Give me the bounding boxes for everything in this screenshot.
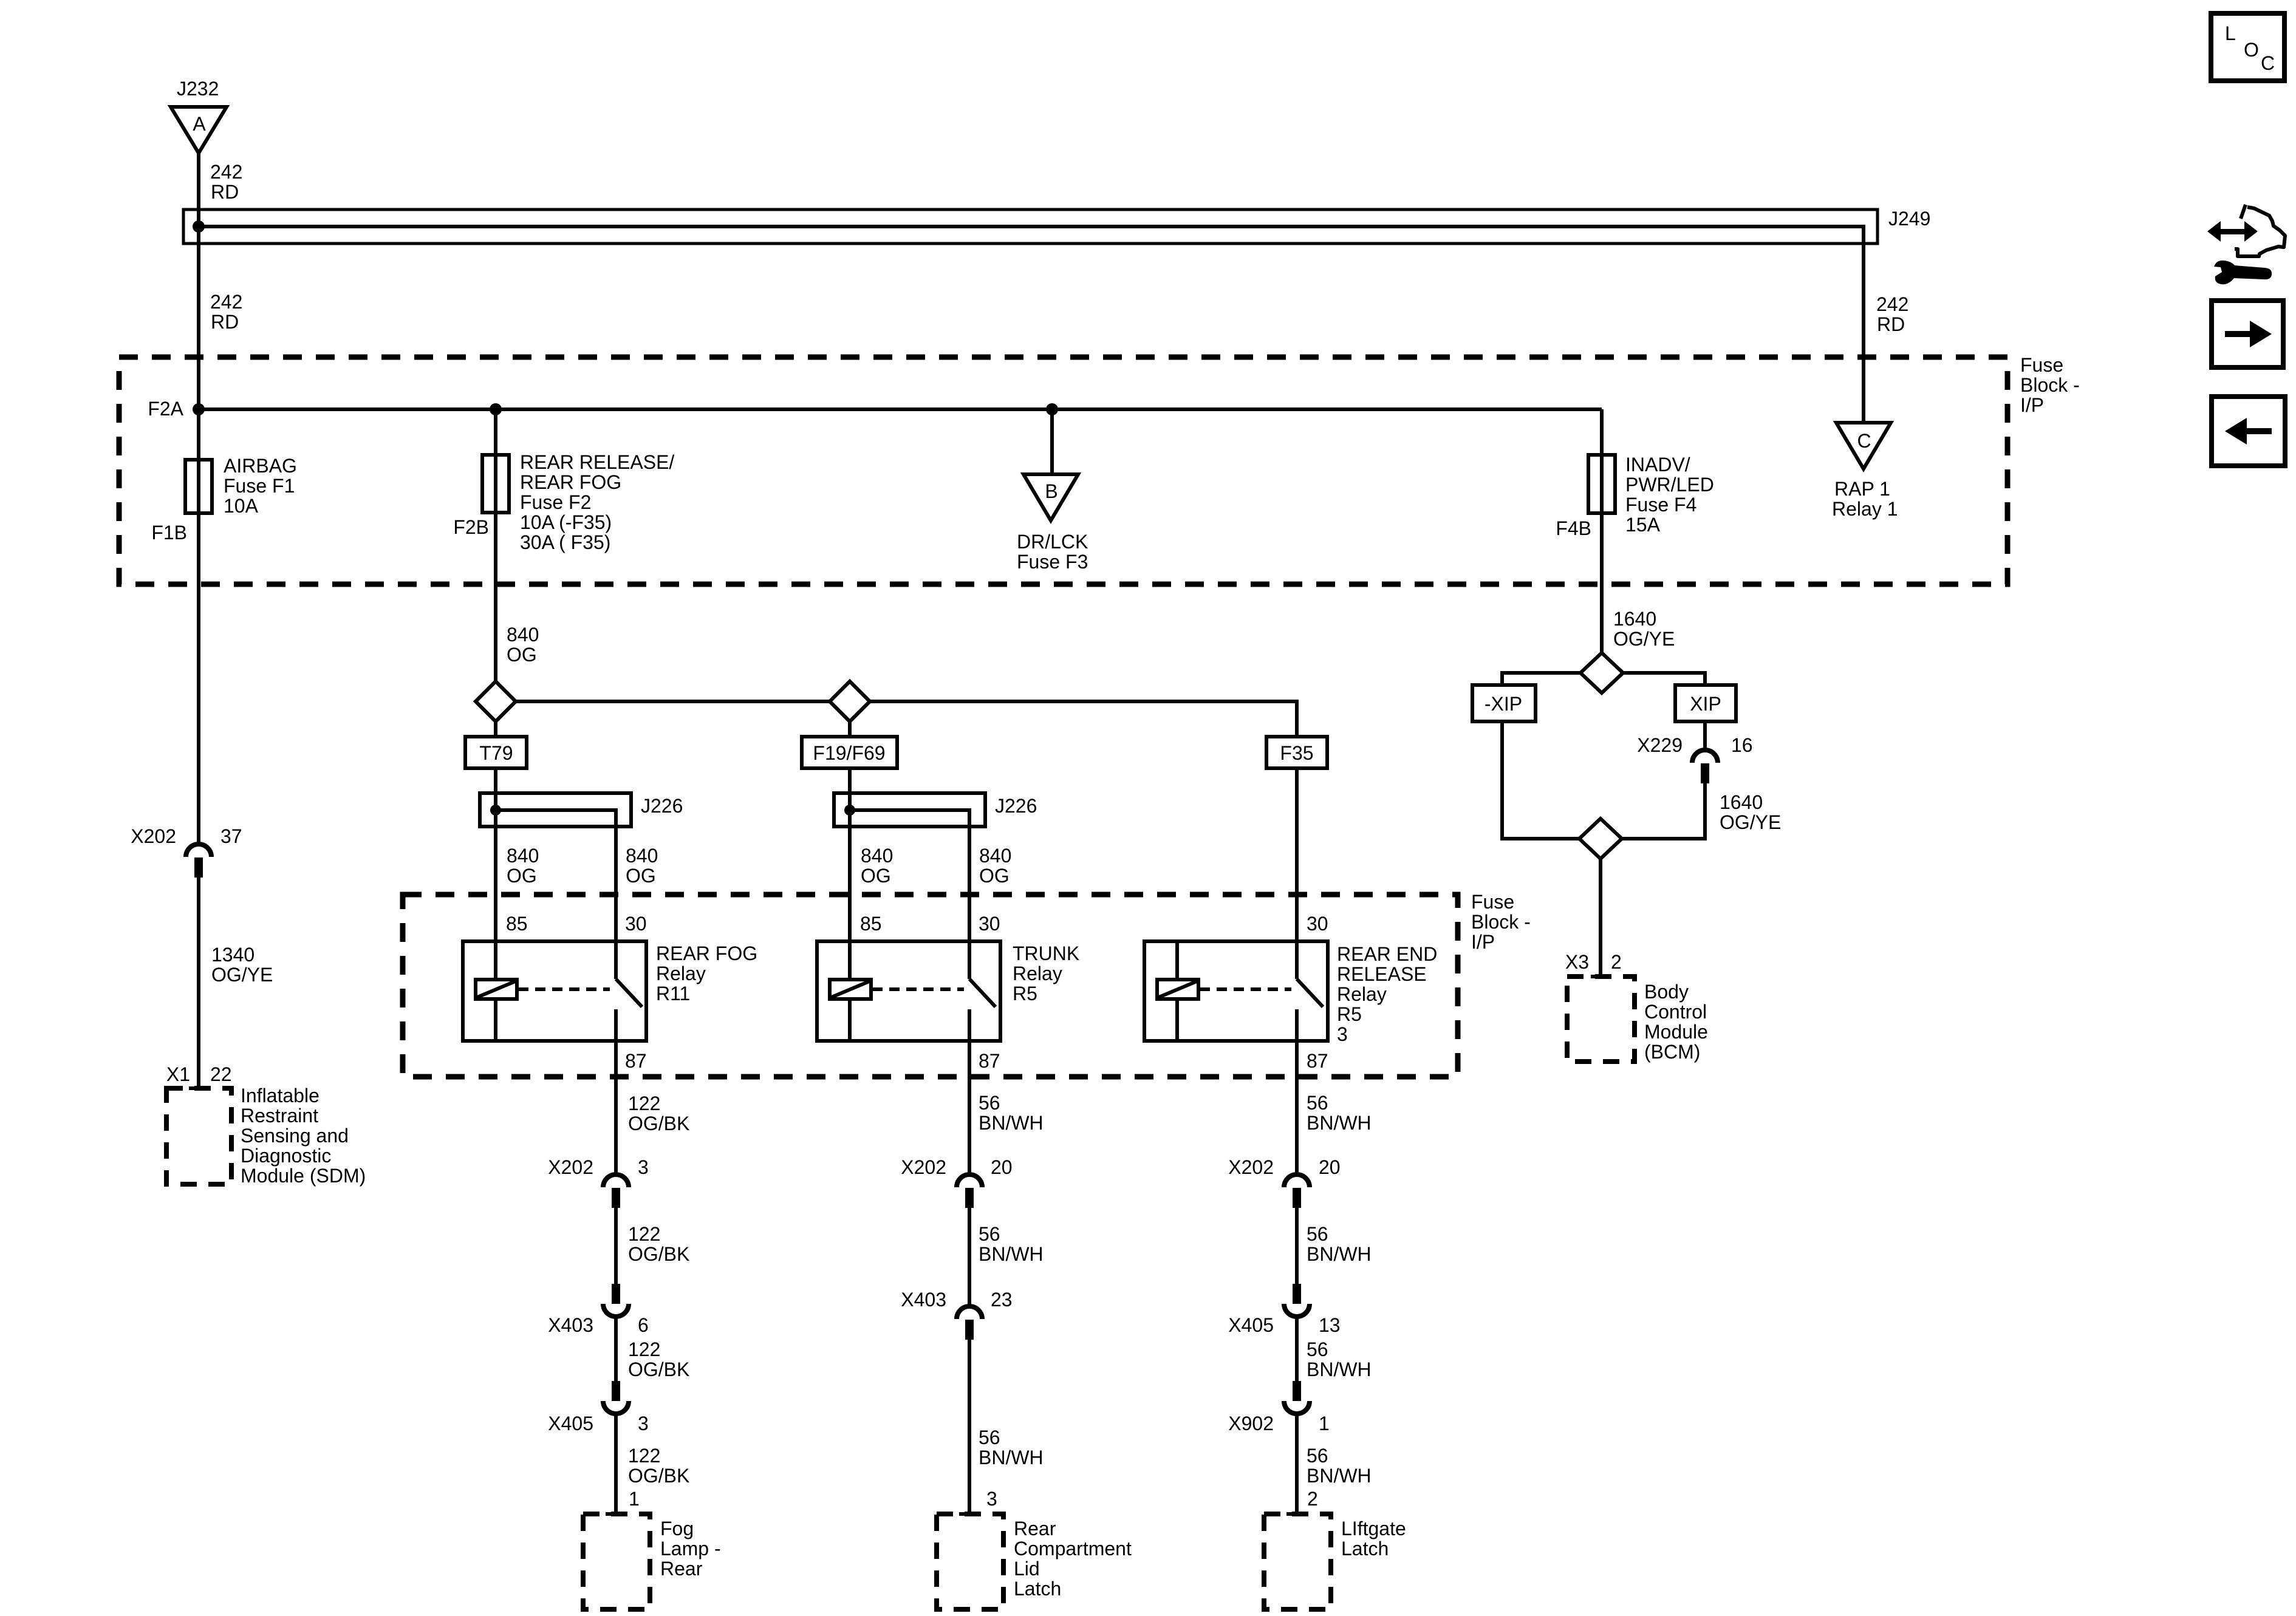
svg-text:840: 840 [979,845,1011,867]
connector X202 pin 20b [1284,1174,1310,1187]
svg-text:F4B: F4B [1556,517,1591,539]
svg-text:840: 840 [861,845,893,867]
svg-text:F2B: F2B [453,516,489,538]
svg-text:A: A [193,113,206,135]
svg-text:OG: OG [979,865,1010,887]
fuse F2 [482,455,509,513]
wire F35 down to relay pin 30 [1295,768,1299,979]
svg-text:20: 20 [991,1156,1013,1178]
svg-text:F19/F69: F19/F69 [813,742,885,764]
svg-text:56: 56 [979,1427,1000,1448]
wire 1640 OG/YE fuse F4 to diamond [1600,513,1604,653]
svg-text:OG: OG [507,644,537,666]
svg-text:Body: Body [1644,981,1689,1003]
svg-text:PWR/LED: PWR/LED [1625,474,1714,496]
svg-text:56: 56 [1307,1223,1328,1245]
relay R11 switch [616,979,642,1007]
svg-text:REAR FOG: REAR FOG [656,943,757,964]
svg-text:56: 56 [1307,1092,1328,1114]
bus J249 outer box [183,210,1877,244]
svg-text:Lid: Lid [1014,1558,1040,1580]
BCM dashed box [1567,977,1635,1062]
svg-text:242: 242 [1876,293,1908,315]
svg-text:X229: X229 [1637,734,1683,756]
relay R11 REAR FOG box [463,941,646,1041]
svg-text:Relay: Relay [1337,983,1387,1005]
svg-text:BN/WH: BN/WH [1307,1359,1372,1380]
wire F2A to fuse F2 [494,409,497,455]
svg-text:TRUNK: TRUNK [1013,943,1079,964]
svg-text:840: 840 [507,845,539,867]
fuse F1 [185,460,212,513]
svg-text:F1B: F1B [151,522,187,544]
svg-text:BN/WH: BN/WH [979,1243,1044,1265]
svg-text:(BCM): (BCM) [1644,1041,1700,1063]
svg-text:Rear: Rear [660,1558,703,1580]
relay R5-3 actuator dashed link [1200,987,1291,991]
option box F19/F69 [802,737,897,768]
Rear Compartment Lid Latch dashed box [937,1514,1003,1609]
svg-text:R11: R11 [656,983,690,1004]
relay R11 coil [494,941,497,980]
svg-text:840: 840 [507,624,539,646]
Fog Lamp Rear dashed box [583,1514,650,1609]
svg-text:C: C [1857,430,1871,452]
svg-text:Fuse F2: Fuse F2 [520,491,591,513]
splice wires to XIP boxes [1502,673,1580,685]
svg-text:56: 56 [979,1223,1000,1245]
svg-text:RD: RD [1877,313,1905,335]
svg-text:OG/YE: OG/YE [211,964,273,986]
svg-text:56: 56 [1307,1338,1328,1360]
option box T79 [465,737,527,768]
svg-text:BN/WH: BN/WH [1307,1465,1372,1487]
relay R5 switch [969,979,996,1007]
wire 56 BN/WH X902 to liftgate latch [1295,1414,1299,1514]
svg-text:Latch: Latch [1014,1578,1061,1600]
svg-text:REAR RELEASE/: REAR RELEASE/ [520,451,674,473]
wire end tick at rear lid latch [959,1512,980,1516]
wire F19/F69 to J226 [848,768,852,793]
svg-text:-XIP: -XIP [1485,693,1522,715]
svg-text:Fuse F3: Fuse F3 [1017,551,1088,573]
relay R5 coil [848,941,852,980]
svg-text:X3: X3 [1565,951,1589,973]
svg-text:B: B [1045,480,1057,502]
svg-text:840: 840 [626,845,658,867]
svg-text:REAR END: REAR END [1337,943,1437,965]
svg-text:F35: F35 [1280,742,1313,764]
svg-text:Block -: Block - [1471,911,1531,933]
svg-text:20: 20 [1319,1156,1341,1178]
wire end tick at liftgate latch [1286,1512,1307,1516]
connector X405 pin 3 [612,1381,620,1401]
svg-text:3: 3 [986,1488,997,1510]
svg-text:R5: R5 [1013,983,1037,1004]
svg-text:Control: Control [1644,1001,1707,1023]
svg-text:122: 122 [628,1338,660,1360]
splice bus J226 left [480,793,631,827]
svg-text:X902: X902 [1228,1413,1274,1434]
wire end tick at SDM [189,1086,210,1090]
svg-text:3: 3 [638,1156,649,1178]
splice diamond 2 [830,681,870,721]
svg-text:1640: 1640 [1720,791,1763,813]
legend arrow left box [2212,397,2285,466]
wire 56 BN/WH X405 to X902 [1295,1317,1299,1381]
wire diamond1 to T79 [494,721,497,737]
fuse F4 [1588,455,1615,513]
splice diamond 1 [476,681,516,721]
SDM dashed box [166,1088,231,1184]
svg-text:O: O [2244,39,2259,61]
relay R5-3 REAR END RELEASE box [1144,941,1328,1041]
svg-text:Relay: Relay [1013,963,1062,984]
svg-text:C: C [2261,52,2275,74]
option box F35 [1266,737,1327,768]
wire 242 RD from J232 through bus [197,153,200,409]
fuse block I/P dashed box 2 [403,895,1458,1077]
relay R5-3 coil [1175,941,1179,980]
wire diamond2 to F19/F69 [848,721,852,737]
svg-text:Latch: Latch [1341,1538,1389,1560]
svg-text:OG/BK: OG/BK [628,1113,689,1134]
svg-text:242: 242 [210,161,242,183]
svg-text:1340: 1340 [211,944,255,966]
svg-text:87: 87 [979,1050,1000,1072]
legend wrench icon [2214,261,2272,284]
wire 840 OG J226-2 left to relay 85 [848,827,852,941]
svg-text:23: 23 [991,1289,1013,1311]
wire 56 BN/WH relay R5 87 to X202 [968,1041,971,1174]
svg-text:87: 87 [625,1050,647,1072]
svg-text:6: 6 [638,1314,649,1336]
svg-text:OG/YE: OG/YE [1613,628,1675,650]
svg-text:T79: T79 [479,742,513,764]
svg-text:XIP: XIP [1690,693,1721,715]
svg-text:Sensing and: Sensing and [241,1125,349,1147]
splice bus J226 right [834,793,985,827]
svg-text:OG: OG [861,865,891,887]
wire end tick at BCM [1591,975,1611,978]
svg-text:LIftgate: LIftgate [1341,1518,1406,1539]
svg-text:RD: RD [211,311,239,333]
junction dot on bus at x327 [193,220,205,233]
wire T79 to J226 [494,768,497,793]
svg-text:10A: 10A [224,495,259,517]
wire F2A to fuse F4 [1600,409,1604,455]
wire diamond to BCM [1599,859,1602,977]
svg-text:122: 122 [628,1093,660,1114]
node F2A bus wire [199,407,1602,411]
svg-text:L: L [2225,22,2236,44]
svg-text:242: 242 [210,291,242,313]
svg-text:X405: X405 [1228,1314,1274,1336]
svg-text:22: 22 [210,1063,232,1085]
svg-text:2: 2 [1307,1488,1318,1510]
wire 840 OG fuse F2 to splice diamond [494,513,497,681]
legend car body outline [2241,205,2246,219]
svg-text:Diagnostic: Diagnostic [241,1145,331,1167]
svg-text:X403: X403 [548,1314,593,1336]
wire 56 BN/WH X202 to X403 [968,1208,971,1307]
svg-text:Fuse F1: Fuse F1 [224,475,295,497]
svg-text:Lamp -: Lamp - [660,1538,721,1560]
svg-text:X405: X405 [548,1413,593,1434]
svg-text:RELEASE: RELEASE [1337,963,1427,985]
svg-text:Fog: Fog [660,1518,694,1539]
svg-text:F2A: F2A [148,398,183,420]
svg-text:85: 85 [860,913,882,935]
junction dot F2A x816 [490,403,502,415]
relay R5-3 switch [1297,979,1323,1007]
svg-text:85: 85 [506,913,528,935]
svg-text:Fuse: Fuse [2020,354,2063,376]
connector X202 pin 3 [603,1174,629,1187]
connector X202 pin 37 [186,844,211,857]
svg-text:J226: J226 [641,795,683,817]
wire 1340 OG/YE fuse F1 to X202 [197,513,200,844]
wire 840 OG J226-2 right to relay 30 [968,827,971,979]
svg-text:OG: OG [626,865,656,887]
svg-text:OG/YE: OG/YE [1720,811,1781,833]
relay R11 actuator dashed link [518,987,610,991]
option box -XIP [1472,685,1536,721]
svg-text:X1: X1 [166,1063,190,1085]
svg-text:30: 30 [625,913,647,935]
wire XIP to X229 [1703,721,1707,751]
splice diamond bottom XIP [1579,819,1622,859]
connector X902 pin 1 [1293,1381,1301,1401]
svg-text:J249: J249 [1888,208,1930,230]
junction dot F2A x1732 [1046,403,1058,415]
wire 122 OG/BK relay R11 87 to X202 [614,1041,618,1174]
svg-text:30: 30 [1307,913,1328,935]
svg-text:13: 13 [1319,1314,1341,1336]
svg-text:RD: RD [211,181,239,203]
connector X229 pin 16 [1692,750,1718,763]
wire 122 OG/BK X405 to fog lamp [614,1414,618,1514]
svg-text:I/P: I/P [2020,394,2044,416]
svg-text:INADV/: INADV/ [1625,454,1690,476]
svg-text:X202: X202 [131,825,176,847]
svg-text:122: 122 [628,1445,660,1467]
svg-text:I/P: I/P [1471,931,1495,953]
relay R5 actuator dashed link [872,987,964,991]
bus J249 inner conductor [194,227,1864,244]
svg-text:OG/BK: OG/BK [628,1465,689,1487]
wire F2A to fuse F3 arrow [1050,409,1054,474]
svg-text:15A: 15A [1625,514,1661,536]
legend car icon double arrow [2207,221,2221,242]
svg-text:30A ( F35): 30A ( F35) [520,531,610,553]
wire 122 OG/BK X202 to X403 [614,1208,618,1284]
svg-text:X403: X403 [901,1289,946,1311]
svg-text:R5: R5 [1337,1003,1362,1025]
svg-text:87: 87 [1307,1050,1328,1072]
svg-text:Block -: Block - [2020,374,2080,396]
Liftgate Latch dashed box [1264,1514,1331,1609]
svg-text:OG/BK: OG/BK [628,1359,689,1380]
svg-text:DR/LCK: DR/LCK [1017,531,1088,553]
svg-text:AIRBAG: AIRBAG [224,455,297,477]
splice bus horizontal wire [496,701,1297,737]
svg-text:2: 2 [1611,951,1622,973]
svg-text:1640: 1640 [1613,608,1656,630]
svg-text:J226: J226 [995,795,1037,817]
svg-text:Compartment: Compartment [1014,1538,1132,1560]
connector X405 pin 13 [1293,1284,1301,1304]
wire 56 BN/WH X202 to X405 [1295,1208,1299,1284]
svg-text:X202: X202 [548,1156,593,1178]
svg-text:OG: OG [507,865,537,887]
wire 122 OG/BK X403 to X405 [614,1317,618,1381]
splice diamond top XIP [1580,653,1623,693]
svg-text:56: 56 [1307,1445,1328,1467]
svg-text:Rear: Rear [1014,1518,1056,1539]
wire 840 OG J226-1 right to relay 30 [614,827,618,979]
fuse block I/P dashed box [119,357,2007,584]
off-page triangle C RAP 1 Relay 1 [1836,423,1891,469]
connector X403 pin 6 [612,1284,620,1304]
svg-text:Module: Module [1644,1021,1708,1043]
wire -XIP to lower diamond [1502,721,1579,839]
svg-text:Inflatable: Inflatable [241,1085,319,1106]
option box XIP [1675,685,1736,721]
relay R5 TRUNK box [817,941,1000,1041]
off-page triangle B DR/LCK Fuse F3 [1023,474,1078,520]
svg-text:RAP 1: RAP 1 [1834,478,1890,500]
wire 56 BN/WH relay R5-3 87 to X202 [1295,1041,1299,1174]
svg-text:Fuse F4: Fuse F4 [1625,494,1696,516]
wire 56 BN/WH X403 to rear lid latch [968,1340,971,1514]
svg-text:X202: X202 [1228,1156,1274,1178]
svg-text:122: 122 [628,1223,660,1245]
svg-text:1: 1 [1319,1413,1330,1434]
connector X202 pin 20 [957,1174,982,1187]
svg-text:Restraint: Restraint [241,1105,318,1127]
junction dot F2A x327 [193,403,205,415]
wire end tick at fog lamp [606,1512,626,1516]
svg-text:Relay: Relay [656,963,706,984]
svg-text:30: 30 [979,913,1000,935]
svg-text:Relay 1: Relay 1 [1832,498,1898,520]
svg-text:56: 56 [979,1092,1000,1114]
legend arrow right box [2212,301,2283,367]
wire F2A to fuse F1 [197,409,200,460]
svg-text:BN/WH: BN/WH [1307,1112,1372,1134]
svg-text:1: 1 [629,1488,640,1510]
svg-text:REAR FOG: REAR FOG [520,471,621,493]
svg-text:J232: J232 [177,78,219,100]
wire 840 OG J226-1 left to relay 85 [494,827,497,941]
svg-text:BN/WH: BN/WH [979,1112,1044,1134]
svg-text:BN/WH: BN/WH [1307,1243,1372,1265]
svg-text:X202: X202 [901,1156,946,1178]
svg-text:OG/BK: OG/BK [628,1243,689,1265]
wire 1640 OG/YE X229 to lower diamond [1622,783,1705,839]
svg-text:3: 3 [1337,1023,1348,1045]
splice J232 triangle A [171,107,227,153]
svg-text:BN/WH: BN/WH [979,1447,1044,1468]
connector X403 pin 23 [957,1306,982,1319]
wire 242 RD right drop to RAP relay [1862,244,1865,423]
svg-text:10A (-F35): 10A (-F35) [520,511,612,533]
svg-text:16: 16 [1731,734,1753,756]
svg-text:Module (SDM): Module (SDM) [241,1165,366,1187]
svg-text:3: 3 [638,1413,649,1434]
legend LOC box [2211,13,2284,81]
svg-text:37: 37 [220,825,242,847]
svg-text:Fuse: Fuse [1471,891,1514,913]
wire 1340 OG/YE X202 to SDM [197,878,200,1088]
